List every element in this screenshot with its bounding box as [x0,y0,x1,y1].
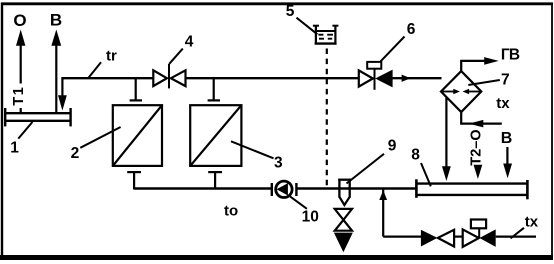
drain funnel (solid) [334,233,353,253]
mud filter 9 [338,179,351,205]
label 2 [71,127,121,162]
svg-text:В: В [501,130,513,147]
svg-text:2: 2 [71,145,80,162]
label 1 [10,122,32,157]
control valve 6 [359,62,392,90]
label tx (bottom right) [511,213,539,238]
boiler 2 [113,105,162,166]
svg-text:В: В [50,11,62,30]
nozzle: boiler 3 bottom stem [208,172,222,189]
svg-text:Т2–О: Т2–О [469,129,485,165]
wire: circulation riser with up arrow [379,190,387,237]
flow arrow after valve 6 [402,75,411,82]
label 8 [411,147,431,187]
svg-text:О: О [13,11,26,30]
labelled arrow T2-O into header 8 [469,129,485,179]
svg-text:tr: tr [106,47,117,64]
valve 4 [153,64,185,89]
nozzle: boiler 3 top stem [208,79,220,101]
heat exchanger 7 [441,71,481,112]
nozzle: boiler 2 top stem [130,79,142,101]
svg-text:10: 10 [302,209,319,226]
label 7 [468,71,509,88]
svg-text:7: 7 [501,71,510,88]
label 10 [290,197,319,226]
arrow B [51,30,61,113]
svg-text:8: 8 [411,147,420,164]
svg-text:5: 5 [286,3,295,20]
svg-text:Т1: Т1 [11,86,27,106]
wire: bottom-right circulation line [383,236,536,238]
svg-text:ГВ: ГВ [501,47,520,64]
label tr [88,47,117,78]
label 9 [347,138,397,184]
wire: bottom return pipe [134,187,415,189]
svg-text:1: 1 [10,140,19,157]
nozzle: boiler 2 bottom stem [127,172,141,189]
svg-text:to: to [224,203,238,220]
label 3 [231,141,283,171]
label 6 [380,21,416,62]
header 1 (elevator unit) [5,108,70,126]
tank 5 (open expansion tank) [313,25,339,45]
boiler 3 [190,105,241,166]
label 5 [286,3,318,34]
control valve (bottom right with actuator) [463,220,496,247]
wire: exchanger top outlet to GV [461,57,499,71]
svg-text:6: 6 [407,21,416,38]
label 4 [169,33,193,64]
wire: exchanger drain to header 8 [442,98,451,182]
arrow O with rotated tag T1 [11,30,27,113]
svg-text:3: 3 [274,155,283,172]
svg-text:4: 4 [185,33,194,50]
wire: exchanger bottom circulation inlet [461,112,502,127]
svg-text:9: 9 [388,138,397,155]
drain valve below filter [335,209,352,231]
wire: main top pipe [62,77,441,79]
svg-text:tx: tx [525,213,539,230]
node: impulse dashed line [326,49,328,187]
header 8 [416,179,527,199]
wire: top pipe down-corner into header 1 with arrow [58,77,67,111]
shutoff valve (bottom right, half filled) [421,230,454,247]
arrow B into header 8 [503,147,512,178]
pump 10 [272,181,297,197]
svg-text:tx: tx [496,95,510,112]
